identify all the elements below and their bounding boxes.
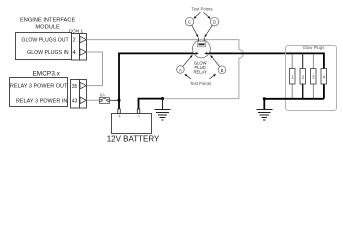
glow plug 1 drop wires (291, 54, 293, 68)
svg-text:C: C (188, 20, 191, 25)
test point D circle (210, 17, 218, 25)
svg-text:RELAY: RELAY (193, 69, 207, 74)
svg-text:2: 2 (73, 38, 76, 44)
svg-text:Test Points: Test Points (190, 81, 211, 86)
pin 43 triangle (80, 97, 86, 104)
battery - mark (137, 115, 140, 117)
wire glow plugs return bus to right ground (thick) (264, 99, 324, 110)
arrow A to relay contact left (183, 57, 191, 66)
junction dot right ground (263, 97, 266, 100)
svg-text:GLOW PLUGS OUT: GLOW PLUGS OUT (21, 38, 69, 44)
svg-text:A: A (179, 68, 182, 73)
label GLOW PLUG RELAY (193, 60, 207, 74)
svg-text:43: 43 (72, 99, 78, 105)
connector CON1 body (72, 34, 80, 61)
relay coil stub left (197, 38, 199, 42)
battery + mark (118, 115, 121, 118)
engine interface module box (16, 33, 72, 60)
svg-text:4: 4 (73, 50, 76, 56)
wire pin4 to pin35 link (87, 52, 103, 86)
glow plug 2 (300, 69, 306, 85)
svg-text:Glow Plugs: Glow Plugs (303, 45, 325, 50)
wire pin2 to relay coil (signal) (87, 39, 199, 41)
arrow D to relay coil right (206, 25, 212, 35)
ground left (155, 99, 171, 120)
svg-text:6A: 6A (100, 92, 105, 97)
arrow top text to C (196, 12, 201, 17)
relay contact right segment with arrowhead (207, 52, 210, 54)
ground right (256, 110, 272, 121)
svg-text:35: 35 (72, 84, 78, 90)
arrow bottom text to A (187, 76, 191, 79)
glow plug 1 (290, 69, 296, 85)
circuit breaker (99, 98, 109, 104)
wire pin43 to breaker (87, 99, 100, 101)
arrow top text to D (204, 12, 209, 17)
pin 35 triangle (80, 82, 86, 89)
glow plug 4 (321, 69, 327, 85)
relay coil box (197, 41, 205, 47)
wire battery- to left ground junction (thick) (139, 99, 163, 109)
relay contact left segment with arrowhead (193, 52, 196, 54)
junction dot battery- / ground (161, 97, 164, 100)
label ENGINE INTERFACE MODULE (20, 18, 76, 31)
relay coil stub right (203, 38, 205, 42)
glow plug 2 drop wires (302, 54, 304, 68)
svg-text:RELAY 3 POWER OUT: RELAY 3 POWER OUT (10, 83, 68, 89)
svg-text:B: B (221, 68, 224, 73)
pin 2 triangle (80, 36, 86, 43)
svg-text:ENGINE INTERFACE: ENGINE INTERFACE (20, 18, 76, 24)
svg-text:GLOW PLUGS IN: GLOW PLUGS IN (27, 50, 69, 56)
junction dot battery+/breaker (117, 99, 120, 102)
battery 12V (112, 109, 152, 134)
EMCP3 box (10, 78, 68, 107)
wire battery+ vertical to relay (thick) (119, 53, 194, 108)
connector EMCP body (71, 80, 80, 109)
arrow B to relay contact right (212, 57, 219, 66)
svg-text:RELAY 3 POWER IN: RELAY 3 POWER IN (16, 99, 67, 105)
wire relay coil return (gray, with hop over thick wire) (164, 40, 243, 99)
glow plug 4 bottom drop (thick) (323, 84, 325, 99)
svg-text:MODULE: MODULE (35, 24, 60, 30)
glow plug relay circle (192, 40, 210, 58)
svg-text:EMCP3.x: EMCP3.x (32, 71, 60, 78)
pin 4 triangle (80, 49, 86, 56)
test point A circle (177, 66, 185, 74)
glow plug 3 drop wires (312, 54, 314, 68)
svg-text:Test Points: Test Points (191, 7, 212, 12)
glow plugs enclosure box (286, 46, 337, 111)
arrow C to relay coil left (192, 25, 197, 35)
svg-text:D: D (213, 20, 216, 25)
svg-text:12V BATTERY: 12V BATTERY (107, 134, 160, 143)
svg-text:CON 1: CON 1 (69, 28, 84, 33)
arrow bottom text to B (210, 76, 214, 79)
test point C circle (185, 17, 193, 25)
wire breaker to junction (110, 99, 119, 101)
glow plug 3 (311, 69, 317, 85)
wire relay to glow plugs (thick) (209, 53, 324, 68)
test point B circle (218, 66, 226, 74)
